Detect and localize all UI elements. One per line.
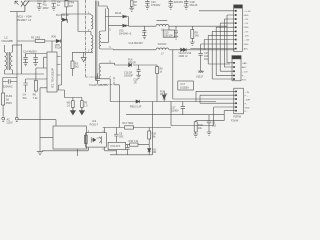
node text R2 value [69,1,74,8]
wire IC left pins [26,54,44,80]
wire aux top L [98,1,107,8]
wire N rail [21,44,23,74]
box C17 label [178,81,194,90]
svg-text:06/14F: 06/14F [190,4,198,7]
capacitor C14 box label [163,26,178,39]
svg-text:250V: 250V [6,101,12,105]
svg-text:1M: 1M [69,4,73,8]
node text C8 value [119,133,124,139]
node text R10 value [198,124,203,130]
svg-text:C10 473: C10 473 [110,145,120,148]
box feedback module [53,126,86,149]
svg-text:+ 5V: + 5V [244,31,249,33]
svg-text:F2V/W: F2V/W [231,119,239,122]
svg-text:240: 240 [195,35,200,38]
resistor R2 startup [65,0,68,14]
isolation boundary dash horizontal [86,77,115,85]
node text C9box value [110,145,120,148]
svg-text:1R: 1R [134,81,137,84]
svg-text:470/16V: 470/16V [151,4,161,7]
node text L7 label [161,52,164,55]
diode VD5 [56,39,61,42]
svg-text:330/16V: 330/16V [134,42,144,45]
capacitor C14a [23,54,28,66]
node text R1 value [31,35,41,39]
capacitor C2 47u/400V [37,1,42,10]
svg-text:1.0: 1.0 [84,105,88,108]
svg-text:100/50P: 100/50P [124,74,133,77]
node text C12 value [190,1,198,7]
isolation boundary dash [85,0,87,77]
svg-text:R16 7.2k: R16 7.2k [129,140,139,143]
capacitor CX series [3,79,17,83]
svg-text:CAB: CAB [242,62,247,65]
svg-text:XS2B: XS2B [234,6,241,9]
inductor L6 [156,20,169,26]
capacitor CY1 [95,74,99,85]
transformer T1 secondary mid tap [101,42,108,44]
svg-text:IC1 TEA1523P: IC1 TEA1523P [50,68,54,88]
svg-text:+ 5V: + 5V [244,23,249,25]
capacitor C14b [33,54,38,66]
svg-text:FU01: FU01 [6,94,13,98]
svg-text:P2R/W: P2R/W [233,116,241,119]
capacitor C12 [184,0,189,9]
svg-text:FR.DR: FR.DR [160,93,168,96]
svg-text:3A: 3A [6,98,9,102]
node pin numbers T1 [88,12,111,79]
diode VD9 dual [181,48,187,51]
capacitor C11 [168,0,173,9]
svg-text:GND: GND [244,44,249,46]
fuse FU01 [2,93,5,117]
wire filter bottom [3,74,44,82]
node text XS2 pins [242,62,248,81]
wire rect join [128,17,130,27]
svg-text:103: 103 [212,125,217,128]
node text U3 value [152,148,157,154]
node text G7 label [196,76,204,79]
node text C13 value [129,42,144,45]
wire fan XS1 [190,11,235,79]
node text FU01 value [6,94,13,105]
capacitor C8 [114,128,118,143]
wire L rail [16,12,18,117]
node text U2 pins [88,131,105,151]
ic U1 TEA1523 [40,41,65,92]
svg-text:+ 3V: + 3V [245,92,250,94]
svg-text:431: 431 [152,151,157,154]
wire top rail [25,0,78,2]
wire secondary common down [114,85,119,128]
svg-text:7.2k: 7.2k [33,96,39,100]
wire snubber rail [59,14,91,90]
svg-text:FR107: FR107 [62,14,70,17]
svg-text:- 30R: - 30R [245,99,251,101]
inductor L7 [156,44,169,50]
node text C4 value [23,93,28,100]
node text R16 value [129,140,139,143]
node text U2 label [90,120,99,126]
ground G2 [70,108,75,115]
wire fan XS3 [196,91,235,125]
wire aux 3V line [115,63,157,65]
svg-text:46/50V: 46/50V [29,49,37,53]
resistor R4 1ohm [72,98,75,111]
ground G5 [129,8,134,11]
terminal AC N [15,117,18,121]
node text C11 value [174,1,184,4]
wire feedback top [103,127,171,129]
node text C15 value [124,72,133,78]
wire primary tap [78,1,91,32]
transformer T1 secondary upper [99,31,113,49]
wire 12V down rail [173,50,235,99]
svg-text:ADC: ADC [242,66,247,69]
ground G3 [79,108,84,115]
capacitor C19 [126,145,130,155]
wire bottom rail [110,150,153,155]
ground G8 [193,134,198,137]
svg-text:NXGGBB: NXGGBB [2,39,13,43]
svg-text:+ 12V: + 12V [242,71,248,73]
wire to current sense [65,90,83,98]
wire sense divider [152,102,154,155]
node text XS3 label [233,116,241,119]
node text U1 label [50,68,54,88]
bridge rectifier VD1-VD4 [15,1,29,12]
resistor R6 [34,79,37,92]
node text VD8 label [119,29,132,35]
ground G1 [37,151,43,155]
transformer T1 core [95,1,97,81]
connector XS2 [232,56,241,81]
node text VD6 value [56,14,70,17]
transformer T1 primary upper [91,14,93,29]
transformer T1 primary lower [91,32,93,53]
svg-text:L2: L2 [5,36,9,40]
svg-text:F -: F - [245,104,248,106]
wire left input rail [2,82,4,94]
svg-text:FR10R: FR10R [128,61,136,64]
node text R3 value [75,62,80,68]
ground G6 [190,42,195,45]
resistor R8 [156,65,159,102]
optocoupler U2 PC817 [86,133,107,147]
node text VD9 value [178,52,191,58]
terminal AC L [2,117,5,121]
svg-text:VD6: VD6 [51,35,56,38]
capacitor C10 [145,0,150,9]
svg-text:V1517: V1517 [196,76,204,79]
node text C5 value [212,122,217,128]
wire 12V rail [113,48,235,51]
svg-text:FU2: FU2 [56,14,61,17]
component bar shunt [85,135,88,143]
wire main secondary line [110,101,216,103]
svg-text:C14: C14 [23,49,28,53]
diode VD12 [136,100,142,103]
node text R7 value [134,1,138,7]
svg-text:400V: 400V [43,6,49,10]
svg-text:ADC: ADC [244,48,249,51]
svg-text:1.0: 1.0 [67,105,71,108]
node text P2W label [231,119,239,122]
resistor R15 [148,128,151,147]
svg-text:+ 5 -9V: + 5 -9V [244,11,252,13]
svg-text:F -: F - [242,76,245,78]
wire C14 top [26,53,47,55]
node text C10 value [151,1,161,7]
node text VD12 value [130,106,142,109]
node text R13 value [122,122,134,125]
box C9 label [108,142,126,149]
svg-text:FD14: FD14 [115,12,122,15]
svg-text:GND: GND [244,15,249,17]
transformer T1 secondary lower [99,63,115,101]
wire opto pin2 [105,147,117,151]
svg-text:2k2: 2k2 [75,65,80,68]
connector XS3 [234,88,244,114]
node text XS1 pins [244,11,252,51]
capacitor C18 [181,102,185,115]
wire clamp down [66,14,68,20]
capacitor C4 [23,79,27,92]
node text C16 value [204,52,209,61]
capacitor C5 [207,115,212,136]
diode VD6 snubber [62,18,68,21]
wire 5V rail [129,25,228,27]
capacitor C13 [142,26,146,39]
svg-text:R1 1R3: R1 1R3 [31,35,41,39]
wire opto pin1 [104,128,106,133]
ground G4 arrow [81,52,87,62]
node text R6 value [33,93,39,100]
resistor R5 1ohm [81,98,84,111]
svg-text:220VAC: 220VAC [3,85,13,89]
svg-text:GND: GND [244,27,249,29]
wire primary bottom lead [72,51,93,53]
node text R5 value [84,102,88,108]
node text VD5 value [51,35,62,49]
capacitor C3 [51,1,56,10]
wire feedback long [171,102,214,126]
node text AC220V [7,117,13,124]
node text 220VAC [3,85,13,89]
resistor R13 [125,126,134,129]
wire mid bus [126,114,224,116]
resistor R9 [191,26,194,42]
svg-text:1N4148 ×2: 1N4148 ×2 [119,32,132,35]
node text XS3 pins [245,92,251,113]
capacitor C16 [198,50,202,71]
node text VD10 value [128,59,136,65]
svg-text:R13 T3R0: R13 T3R0 [122,122,134,125]
node text R4 value [67,102,71,108]
svg-text:NTC: NTC [242,79,247,81]
ic U3 431 [148,146,151,154]
node text VD11 value [160,91,168,97]
wire bridge output [10,11,25,13]
svg-text:- 15V: - 15V [244,35,250,37]
snubber resistor R3 [71,52,74,76]
node text C14 value [23,49,37,53]
node text XS1 label [234,6,241,9]
node text C14box value [164,31,173,37]
diode VD8 [108,24,128,27]
node text C3 value [57,0,61,7]
node text VD7 label [115,12,122,15]
node text R15 value [152,133,157,139]
svg-text:PC81-7: PC81-7 [90,123,99,126]
connector XS1 [234,5,243,52]
line filter T0 [5,45,22,74]
svg-text:F -: F - [245,111,248,113]
capacitor C15 [136,65,140,78]
wire rect vertical b [107,9,108,43]
diode VD7 [105,15,128,18]
node text C12b label [134,79,139,85]
resistor R10 [194,121,224,134]
svg-text:FB10 5.3F: FB10 5.3F [130,106,142,109]
svg-text:220/16V: 220/16V [174,1,184,4]
resistor R16 [126,143,150,146]
wire feedback rail down [40,88,53,151]
node text C17box value [180,83,189,90]
svg-text:1N20 ×2: 1N20 ×2 [178,55,188,58]
node text R9 value [195,31,200,37]
diode VD11 [162,91,166,102]
node text C2 value [43,0,49,10]
wire opto pin3 [42,147,88,151]
wire rect vertical a [104,9,106,32]
svg-text:01/50V: 01/50V [171,109,179,112]
svg-text:C17: C17 [180,83,185,86]
node text VD1-VD4 value [17,14,32,22]
filter label L2 [2,36,13,43]
svg-text:330/10V: 330/10V [164,34,173,37]
svg-text:FU2A: FU2A [55,47,62,50]
node text L6 label [161,29,164,32]
svg-text:10(30)V: 10(30)V [180,87,189,90]
node text C18 value [171,107,179,113]
resistor R7 [130,1,133,8]
svg-text:+ 5V: + 5V [244,19,249,21]
node text R8 value [159,68,163,74]
svg-text:+ 12V: + 12V [244,40,250,42]
ground G7 [198,71,204,73]
wire AC to right [18,120,56,126]
diode VD10 [129,63,132,66]
svg-text:GND: GND [245,107,250,109]
svg-text:1R2: 1R2 [119,135,124,138]
resistor R1 [17,40,56,43]
node text CY1 value [89,84,109,87]
svg-text:64v: 64v [23,96,28,100]
svg-text:220V: 220V [7,120,13,124]
svg-text:IN4007 ×4: IN4007 ×4 [17,18,31,22]
